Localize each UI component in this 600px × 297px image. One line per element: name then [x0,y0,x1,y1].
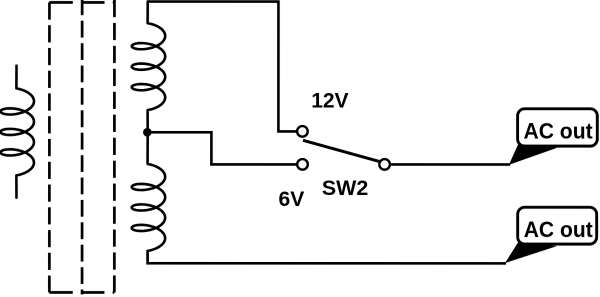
switch SW2 12V throw terminal [297,126,308,137]
switch SW2 pole terminal [379,159,390,170]
svg-text:12V: 12V [311,88,349,112]
svg-text:AC out: AC out [524,119,594,144]
flag upper AC out box [518,109,598,146]
flag upper AC out tail [509,145,557,165]
svg-text:AC out: AC out [524,217,594,242]
flag lower AC out box [518,207,597,244]
svg-text:6V: 6V [278,187,305,211]
wire top loop from secondary top to 12V terminal [148,2,303,132]
inductor L2 secondary upper winding [132,2,166,133]
flag lower AC out tail [505,243,557,264]
wire switch pole to upper AC out [385,163,511,166]
svg-text:SW2: SW2 [322,176,368,200]
transformer core dashed left line [48,2,51,292]
transformer core dashed bottom edge [49,291,114,294]
wire secondary bottom to lower AC out [148,250,506,263]
switch SW2 arm [303,140,379,161]
switch SW2 6V throw terminal [297,159,308,170]
wire center tap to 6V terminal [147,132,302,164]
transformer core dashed right line [113,0,116,292]
transformer core dashed middle line [81,0,84,294]
transformer core dashed top edge [49,1,114,4]
inductor L3 secondary lower winding [132,132,166,263]
node center tap junction dot [143,128,152,137]
inductor L1 primary winding [0,66,34,198]
